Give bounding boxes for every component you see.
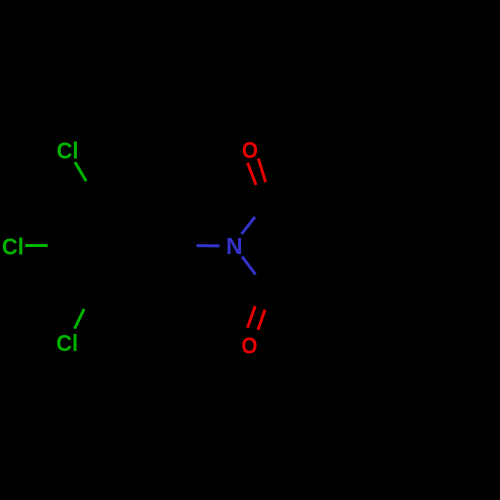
bottom C=O double bond (oxygen halves, red) — [248, 306, 256, 328]
nitrogen N bond half to phenyl — [197, 244, 220, 247]
carbon half of C5-Cl3 bond — [84, 279, 101, 309]
carbon half of C3-Cl1 bond — [86, 181, 101, 213]
imide five-membered ring carbons — [276, 188, 307, 303]
chlorine Cl1 (top left) bond half — [75, 162, 86, 181]
nitrogen N bond half to bottom carbonyl — [242, 257, 256, 275]
svg-text:Cl: Cl — [2, 234, 24, 260]
carbon halves of C=O double bonds — [255, 182, 273, 310]
svg-text:Cl: Cl — [57, 138, 79, 164]
svg-text:O: O — [242, 137, 258, 163]
carbon half of C4-Cl2 bond — [48, 244, 83, 247]
top C=O double bond (oxygen halves, red) — [248, 163, 256, 185]
fused cyclohexene ring (right side) — [271, 135, 428, 343]
cyclohexene inner double-bond line — [420, 176, 423, 275]
benzene ring (phenyl C1-C6, near-black carbon bonds) — [82, 213, 159, 279]
chlorine Cl3 (bottom left) bond half — [75, 309, 85, 329]
svg-text:Cl: Cl — [56, 330, 78, 356]
carbon halves of N-C(=O) bonds — [255, 188, 277, 303]
aromatic inner double-bond lines — [93, 219, 149, 273]
carbon half of C1-N bond — [159, 244, 197, 247]
nitrogen N bond half to top carbonyl — [242, 217, 256, 234]
svg-text:N: N — [226, 233, 243, 259]
svg-text:O: O — [241, 332, 257, 358]
chlorine Cl2 (left) bond half — [25, 244, 47, 247]
